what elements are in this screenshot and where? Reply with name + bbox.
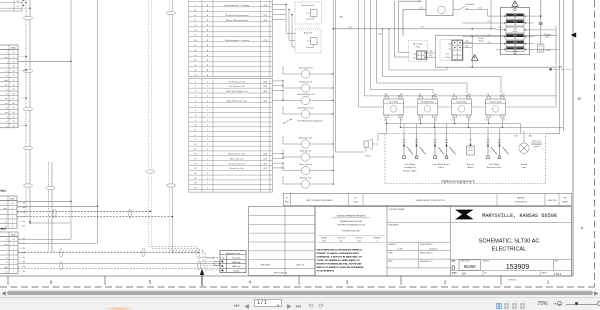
- svg-text:Plug: Plug: [545, 36, 549, 38]
- relay: Brake Relay: [451, 94, 471, 122]
- svg-text:8: 8: [13, 244, 14, 246]
- svg-text:8: 8: [13, 57, 14, 59]
- ui status bar: [0, 297, 600, 310]
- svg-text:7: 7: [13, 248, 14, 250]
- svg-text:SCHEMATIC, SLT30 AC: SCHEMATIC, SLT30 AC: [479, 238, 540, 244]
- svg-text:4: 4: [195, 96, 196, 98]
- svg-text:n: n: [7, 52, 8, 54]
- svg-text:10-08-12: 10-08-12: [429, 248, 439, 250]
- drawing title: [479, 238, 540, 252]
- svg-text:(32): (32): [264, 163, 268, 165]
- svg-text:15: 15: [194, 35, 196, 37]
- accessory plug (dashed box): [408, 40, 427, 61]
- svg-text:Pin: Pin: [222, 257, 225, 259]
- right bus x559.6: [545, 0, 559, 134]
- svg-text:15: 15: [194, 149, 196, 151]
- charging plug label: [543, 34, 550, 39]
- loop y211 x130: [128, 209, 131, 218]
- svg-text:Brake Potentiometer: Brake Potentiometer: [226, 19, 248, 22]
- svg-text:18: 18: [194, 50, 196, 52]
- svg-text:(15): (15): [421, 27, 424, 29]
- equipment label Strobe: [521, 163, 528, 169]
- svg-text:Accelerator Pot: Accelerator Pot: [302, 4, 315, 7]
- svg-text:Mast Down Coil: Mast Down Coil: [229, 153, 246, 156]
- strobe note: [531, 140, 543, 148]
- fuse panel screw top: [514, 8, 517, 11]
- svg-text:Left / Right: Left / Right: [489, 163, 500, 166]
- connector table P2 (left edge upper): [0, 45, 18, 128]
- svg-text:day): day): [0, 227, 5, 231]
- svg-text:NEXT ASSY: NEXT ASSY: [261, 264, 272, 267]
- harness bus (dotted) mid A: [48, 162, 50, 252]
- svg-text:RETURN UPON DEMAND AND SHALL N: RETURN UPON DEMAND AND SHALL NOT BE USED: [317, 262, 363, 265]
- wire y201.3: [17, 200, 71, 202]
- svg-text:QTY: QTY: [354, 198, 357, 200]
- connector oval x171 y185.5: [166, 184, 175, 187]
- svg-text:n: n: [6, 203, 7, 205]
- zone tick: [500, 276, 502, 285]
- title block frame: [315, 207, 572, 277]
- svg-text:58: 58: [13, 112, 15, 114]
- svg-text:een: een: [4, 208, 7, 210]
- svg-text:Mast Up Coil: Mast Up Coil: [300, 149, 311, 152]
- svg-text:23: 23: [194, 75, 196, 77]
- svg-text:Accessory: Accessory: [413, 42, 422, 45]
- CAN pair (dotted) x148.8: [149, 0, 220, 257]
- svg-text:Plug: Plug: [446, 57, 450, 59]
- enclosure right edge: [555, 26, 557, 107]
- svg-text:Mast Down Coil: Mast Down Coil: [299, 136, 313, 139]
- feed wire x394.5: [395, 1, 410, 57]
- main horizontal bus y28.8: [332, 28, 496, 30]
- fuse/relay block 1: [506, 14, 524, 20]
- svg-text:PRELIM: PRELIM: [508, 280, 516, 282]
- svg-text:een: een: [5, 244, 8, 246]
- fuse/relay block 5: [506, 41, 524, 47]
- ui view mode icons: [496, 301, 525, 309]
- svg-text:Marker Lights: Marker Lights: [403, 169, 417, 172]
- loop x61 y266: [59, 262, 62, 271]
- svg-text:Potentiometer + Supply: Potentiometer + Supply: [224, 4, 250, 7]
- svg-text:ck: ck: [6, 258, 8, 260]
- relay drop wires: [386, 118, 503, 128]
- svg-text:10: 10: [194, 125, 196, 127]
- enclosure wire 5: [382, 28, 501, 93]
- svg-text:MARYSVILLE, KANSAS 66508: MARYSVILLE, KANSAS 66508: [482, 213, 557, 219]
- svg-text:NOMENCLATURE OR DESCRIPTION: NOMENCLATURE OR DESCRIPTION: [415, 199, 445, 202]
- harness bus left B: [29, 0, 31, 222]
- ui horizontal scrollbar: [0, 289, 600, 297]
- optional equipment (dashed box): [385, 134, 546, 184]
- svg-text:Left / Right Brake: Left / Right Brake: [433, 163, 451, 166]
- svg-text:6: 6: [195, 105, 196, 107]
- svg-text:(7B): (7B): [348, 27, 351, 29]
- svg-text:6: 6: [13, 253, 14, 255]
- enclosure wire 2: [365, 0, 557, 97]
- fuse right wire y49.3: [534, 48, 560, 50]
- enclosure wire 4: [377, 0, 467, 94]
- svg-text:23: 23: [194, 188, 196, 190]
- feed wire x398.5: [399, 1, 410, 52]
- wire label (6B): [340, 17, 344, 19]
- fuse feed wires: [462, 16, 496, 44]
- reference arrow: [571, 32, 576, 37]
- connector pin table (C section): [189, 79, 273, 193]
- svg-text:Diagnostic Port: Diagnostic Port: [226, 252, 241, 255]
- svg-text:Tilt Return Coil: Tilt Return Coil: [299, 80, 312, 83]
- svg-text:een: een: [5, 57, 8, 59]
- svg-text:USED ON: USED ON: [296, 265, 305, 267]
- lamp (42): [498, 134, 509, 159]
- svg-text:5: 5: [12, 222, 13, 224]
- zone tick: [201, 276, 203, 285]
- svg-text:Throttle Potentiometer: Throttle Potentiometer: [225, 14, 249, 17]
- svg-text:16: 16: [194, 154, 196, 156]
- label to tow relay: [478, 38, 484, 43]
- fuse/relay block 6: [506, 47, 524, 52]
- top feed corner: [399, 0, 421, 2]
- svg-text:20: 20: [194, 173, 196, 175]
- svg-text:ck: ck: [6, 71, 8, 73]
- wire label (1B): [421, 27, 424, 29]
- svg-text:(2B): (2B): [466, 41, 469, 43]
- ignition gray wire: [402, 9, 404, 35]
- connector oval mid y188: [46, 186, 55, 189]
- harness bus (dotted) x169.5: [170, 0, 221, 266]
- enclosure wire 3: [371, 0, 434, 94]
- svg-text:orn: orn: [5, 98, 8, 100]
- fuse panel pins: [496, 15, 534, 50]
- svg-text:Side Shift Right Coil: Side Shift Right Coil: [297, 93, 314, 96]
- CAN pair (dotted) x151.8: [150, 0, 220, 262]
- svg-text:Horn: Horn: [366, 155, 372, 158]
- svg-text:FUSE: FUSE: [513, 21, 517, 23]
- svg-text:Reverse Relay: Reverse Relay: [490, 101, 502, 103]
- svg-text:CONFIDENTIAL. IT MUST NOT BE M: CONFIDENTIAL. IT MUST NOT BE MADE PUBLIC…: [317, 255, 363, 258]
- zone tick: [298, 276, 300, 285]
- svg-text:(6B): (6B): [340, 17, 344, 19]
- lamp (40): [415, 134, 426, 159]
- svg-text:APPLICATION: APPLICATION: [274, 271, 288, 274]
- svg-text:16: 16: [194, 40, 196, 42]
- horn wire: [335, 151, 364, 153]
- svg-text:Fork Height Switch (Optional): Fork Height Switch (Optional): [298, 120, 323, 123]
- svg-text:QTY: QTY: [285, 198, 288, 200]
- svg-text:Plug: Plug: [416, 46, 420, 48]
- svg-text:Brake Relay: Brake Relay: [457, 101, 467, 103]
- fuse/relay block 3: [506, 27, 524, 33]
- svg-text:Left / Right: Left / Right: [405, 163, 416, 166]
- lamp feed drops: [404, 124, 524, 134]
- connector table J1 (cut at top-left): [0, 0, 24, 11]
- lamp (41): [445, 134, 456, 159]
- loop x199 y265.5: [197, 261, 200, 270]
- wire (dashed) y216.5: [17, 216, 173, 218]
- label relay note 2: [0, 227, 5, 231]
- solenoid coil: Mast Up Coil: [283, 149, 334, 161]
- svg-text:Reach Out Coil: Reach Out Coil: [229, 162, 246, 165]
- svg-text:Headlight &: Headlight &: [404, 166, 416, 169]
- svg-text:0.015: 0.015: [357, 240, 361, 242]
- solenoid coil: Mast Down Coil: [283, 136, 334, 148]
- address divider: [450, 222, 571, 224]
- key feed wire: [403, 8, 426, 10]
- connector oval left y148: [23, 146, 32, 149]
- svg-text:D: D: [451, 265, 455, 271]
- wire label (2B)b: [378, 34, 381, 36]
- solenoid coil: Tilt Forward Coil: [283, 66, 334, 78]
- svg-text:Reverse Lights: Reverse Lights: [487, 166, 502, 169]
- svg-text:9: 9: [195, 120, 196, 122]
- svg-text:Relay: Relay: [479, 41, 483, 43]
- svg-text:DIRECTLY OR INDIRECTLY IN ANY: DIRECTLY OR INDIRECTLY IN ANY WAY DETRIM…: [317, 266, 365, 269]
- svg-text:3: 3: [195, 91, 196, 93]
- svg-text:60: 60: [13, 103, 15, 105]
- svg-text:(74): (74): [264, 5, 268, 7]
- svg-text:(2B): (2B): [429, 51, 432, 53]
- label optional equipment: [441, 179, 475, 183]
- svg-text:Brake Pot: Brake Pot: [304, 31, 313, 34]
- svg-text:(4B): (4B): [528, 135, 531, 137]
- svg-text:WEIGHT: WEIGHT: [562, 201, 568, 203]
- resistor 120 Ohm body: [214, 262, 220, 265]
- svg-text:13: 13: [194, 139, 196, 141]
- wire (dashed) y211.3: [17, 210, 151, 212]
- svg-text:1 DEC PLCS: 1 DEC PLCS: [337, 237, 345, 239]
- relay output bus y123.5: [387, 123, 521, 125]
- connector oval left y185.5: [23, 184, 32, 187]
- svg-text:Panel: Panel: [513, 31, 518, 33]
- accelerator pot (dashed box): [295, 2, 322, 24]
- zone number 2: [444, 280, 447, 285]
- relay: Horn Relay: [383, 94, 403, 122]
- ui zoom percent: [538, 301, 548, 307]
- svg-text:7: 7: [12, 212, 13, 214]
- svg-text:(77): (77): [469, 139, 472, 141]
- svg-text:17: 17: [194, 159, 196, 161]
- svg-text:ck: ck: [5, 222, 7, 224]
- ui zoom slider: [566, 304, 597, 305]
- horn speaker: [364, 139, 372, 152]
- svg-text:Tilt Return Coil: Tilt Return Coil: [229, 85, 245, 88]
- svg-text:(35): (35): [264, 101, 268, 103]
- charging plug wire: [539, 0, 543, 44]
- svg-text:(27): (27): [264, 159, 268, 161]
- solenoid coil: Side Shift Left Coil: [283, 106, 334, 118]
- svg-text:1: 1: [195, 81, 196, 83]
- svg-text:19: 19: [194, 55, 196, 57]
- svg-text:75: 75: [13, 80, 15, 82]
- CAN wire (solid) y263.5: [18, 263, 220, 265]
- svg-text:56: 56: [13, 71, 15, 73]
- svg-text:B: B: [578, 96, 581, 101]
- svg-text:59: 59: [13, 107, 15, 109]
- svg-text:14: 14: [194, 144, 196, 146]
- proprietary notice: [317, 248, 365, 272]
- svg-text:21: 21: [194, 178, 196, 180]
- connector oval x150 y171.5: [146, 170, 155, 173]
- equipment label Left / Right: [403, 163, 417, 173]
- relay side links y107: [404, 106, 556, 108]
- main bus x333.2: [332, 0, 334, 183]
- svg-text:WIRE#: WIRE#: [11, 235, 16, 237]
- sheet outer dashed border right: [594, 0, 596, 287]
- svg-text:UNIT: UNIT: [563, 198, 567, 200]
- strobe light: [514, 134, 531, 154]
- svg-text:3: 3: [13, 267, 14, 269]
- svg-text:0.06: 0.06: [340, 240, 343, 242]
- wire label (14): [478, 7, 481, 9]
- svg-text:ight: ight: [5, 79, 8, 82]
- svg-text:24: 24: [12, 203, 14, 205]
- connector pin table (B section): [189, 0, 273, 77]
- lamp (76): [487, 134, 498, 159]
- svg-text:COPIED. THIS DRAWING IS LOANE: COPIED. THIS DRAWING IS LOANED SUBJECT T…: [317, 259, 361, 262]
- zone number 4: [249, 280, 252, 285]
- scale row: [452, 271, 562, 277]
- svg-text:(34): (34): [264, 91, 268, 93]
- svg-text:(56): (56): [264, 81, 268, 83]
- svg-text:PART OR IDENTIFYING NUMBER: PART OR IDENTIFYING NUMBER: [306, 199, 333, 202]
- svg-text:WT: WT: [485, 273, 487, 275]
- company address: [482, 213, 557, 219]
- enclosure wire 6: [388, 28, 447, 70]
- svg-text:Alarm: Alarm: [468, 166, 474, 169]
- sheet inner border right: [572, 0, 574, 276]
- svg-text:wn: wn: [5, 271, 7, 273]
- enclosure wire 1: [359, 0, 387, 107]
- svg-text:.X/XX: .X/XX: [322, 240, 326, 242]
- svg-text:THIS DRAWING AND ALL INFORMATI: THIS DRAWING AND ALL INFORMATION THEREIN…: [317, 248, 363, 251]
- svg-text:CAN Low: CAN Low: [232, 265, 241, 268]
- svg-text:Headlight Relay: Headlight Relay: [421, 100, 434, 103]
- horn feed: [372, 124, 386, 145]
- svg-text:(38): (38): [264, 20, 268, 22]
- landoll logo: [455, 210, 474, 220]
- accessory plug wires: [427, 51, 436, 57]
- svg-text:17: 17: [194, 45, 196, 47]
- ui zoom out button: [557, 301, 562, 306]
- svg-text:9: 9: [195, 5, 196, 7]
- svg-text:PROPERTY OF LANDOLL CORPORATIO: PROPERTY OF LANDOLL CORPORATION, AND IS: [317, 252, 361, 255]
- svg-text:24: 24: [13, 52, 15, 54]
- wire stub y61: [18, 61, 72, 63]
- svg-text:WIRE#: WIRE#: [10, 199, 15, 201]
- fuse panel outer box: [501, 8, 530, 55]
- wire y223: [29, 222, 69, 224]
- svg-text:FUSE: FUSE: [513, 35, 517, 37]
- svg-text:2 DEC PLCS: 2 DEC PLCS: [355, 237, 363, 239]
- svg-text:Mast Up Coil: Mast Up Coil: [230, 158, 244, 161]
- resistor 120 Ohm label: [206, 258, 215, 260]
- solenoid coil: Reach In Coil: [283, 176, 334, 188]
- equipment label Left / Right Brake: [433, 163, 451, 169]
- svg-text:ld: ld: [6, 107, 7, 109]
- svg-text:UNLESS OTHERWISE SPECIFIED: UNLESS OTHERWISE SPECIFIED: [337, 216, 366, 218]
- svg-text:A: A: [581, 225, 584, 230]
- svg-text:Function: Function: [232, 256, 240, 259]
- svg-text:Strobe: Strobe: [521, 163, 528, 166]
- svg-text:Optional Equipment: Optional Equipment: [441, 179, 475, 183]
- wire label (3B): [498, 27, 501, 29]
- connector oval left y71: [23, 69, 32, 72]
- svg-text:Reach In Coil: Reach In Coil: [300, 177, 312, 179]
- svg-text:24: 24: [13, 239, 15, 241]
- svg-text:5: 5: [13, 258, 14, 260]
- svg-text:62: 62: [13, 94, 15, 96]
- zone letter B: [578, 96, 581, 101]
- svg-text:22: 22: [194, 70, 196, 72]
- relay: Reverse Relay: [485, 94, 505, 122]
- harness bus (dotted) left A: [25, 0, 27, 217]
- number row: [450, 260, 571, 272]
- svg-text:54: 54: [13, 126, 15, 128]
- svg-text:(75): (75): [264, 40, 268, 42]
- svg-text:26: 26: [13, 75, 15, 77]
- ui page navigation: [234, 299, 324, 309]
- svg-text:12: 12: [194, 134, 196, 136]
- lamp (74): [403, 134, 414, 159]
- hour meter box: [426, 0, 453, 16]
- relay output bus y127.5: [400, 127, 563, 129]
- svg-text:ELECTRICAL: ELECTRICAL: [492, 246, 527, 252]
- fuse right wire y29.9: [534, 29, 556, 31]
- main bus x336.6: [334, 0, 336, 152]
- svg-text:34: 34: [13, 66, 15, 68]
- wire bus x97.5: [18, 0, 98, 243]
- key switch: [453, 3, 488, 16]
- fold arrow: [200, 269, 204, 287]
- svg-text:N/A: N/A: [462, 272, 467, 276]
- svg-text:2: 2: [13, 271, 14, 273]
- svg-text:FUSE: FUSE: [513, 48, 517, 50]
- connector table P3 (left edge middle): [0, 196, 17, 228]
- svg-text:91: 91: [17, 6, 19, 8]
- horn label: [366, 155, 372, 158]
- wire label (15): [419, 7, 422, 9]
- svg-text:Light: Light: [522, 166, 527, 169]
- backup alarm symbol: [467, 134, 475, 156]
- svg-text:4: 4: [13, 262, 14, 264]
- svg-text:8: 8: [12, 208, 13, 210]
- svg-text:18: 18: [194, 163, 196, 165]
- zone number 3: [346, 280, 349, 285]
- svg-text:CAN High: CAN High: [232, 261, 241, 264]
- connector oval left y18: [23, 16, 32, 19]
- loop y211 x54.5: [53, 209, 56, 218]
- svg-text:90: 90: [17, 1, 19, 3]
- svg-text:ve: ve: [6, 121, 8, 123]
- fuse panel screw bottom: [514, 51, 517, 54]
- pot feed wires: [273, 4, 296, 47]
- wire bus x172.5: [172, 0, 220, 270]
- zone tick: [7, 276, 9, 285]
- svg-text:Side Shift Left Coil: Side Shift Left Coil: [227, 100, 247, 103]
- wire y16.1 to charging: [534, 15, 541, 17]
- table P4 stubs: [18, 238, 25, 272]
- svg-text:21: 21: [194, 65, 196, 67]
- svg-text:6: 6: [12, 217, 13, 219]
- svg-text:Backup: Backup: [467, 164, 475, 166]
- svg-text:22: 22: [194, 183, 196, 185]
- wire bus x71: [18, 0, 72, 239]
- svg-text:FUSE: FUSE: [513, 15, 517, 17]
- svg-text:1 OF 1: 1 OF 1: [554, 273, 562, 276]
- zone number 6: [50, 280, 53, 285]
- svg-text:5: 5: [195, 101, 196, 103]
- tow link vertical x472.2: [471, 35, 473, 67]
- right bus x563.5: [563, 0, 565, 131]
